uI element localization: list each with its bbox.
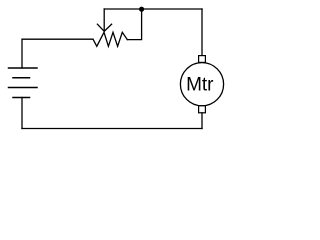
wire: rheostat right lead to riser up to top rail <box>127 9 141 40</box>
battery short plate 1 <box>13 77 30 79</box>
motor bottom terminal square <box>199 106 206 113</box>
wire: battery top to top-left corner to rheostat left lead <box>22 39 93 68</box>
motor top terminal square <box>199 56 206 63</box>
rheostat wiper arrow shaft <box>103 9 105 31</box>
battery long plate 1 <box>9 67 38 69</box>
battery long plate 2 <box>9 87 38 89</box>
motor body circle <box>180 63 223 106</box>
wire: battery bottom down to bottom-left corner <box>21 98 23 129</box>
svg-text:Mtr: Mtr <box>186 75 214 96</box>
rheostat resistor zigzag <box>93 32 127 46</box>
wire: motor bottom to bottom rail <box>201 113 203 129</box>
junction dot at top rail <box>139 7 144 12</box>
battery <box>9 68 38 98</box>
wire: bottom rail <box>22 128 202 130</box>
wire: top rail <box>104 8 202 10</box>
wire: top rail down to motor top terminal <box>201 9 203 56</box>
battery short plate 2 <box>13 97 30 99</box>
rheostat wiper arrowhead <box>97 24 111 31</box>
